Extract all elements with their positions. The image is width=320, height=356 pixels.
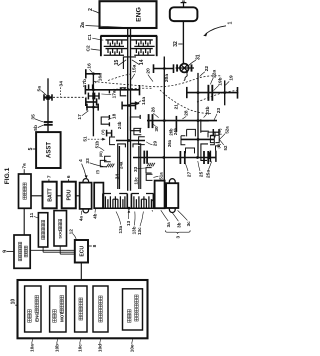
wire ECU to sensor group 10	[80, 263, 82, 281]
svg-text:22a: 22a	[212, 70, 218, 78]
motor rotor box 3a	[155, 181, 165, 209]
svg-text:2a: 2a	[80, 22, 86, 28]
clutch plate 27	[143, 151, 145, 164]
svg-text:(V): (V)	[100, 129, 105, 135]
gear 16	[86, 73, 101, 75]
dashed mesh arc 21	[160, 90, 211, 114]
bracket gear left of center	[130, 117, 140, 131]
main shaft 14/15 (concentric, double line)	[127, 36, 129, 191]
svg-text:12: 12	[69, 229, 75, 235]
svg-text:5a: 5a	[37, 86, 43, 92]
svg-text:MOT: MOT	[59, 312, 64, 322]
svg-text:10c: 10c	[78, 344, 83, 352]
bracket gear 29 left	[201, 119, 209, 133]
svg-text:(III): (III)	[98, 151, 103, 158]
svg-text:10b: 10b	[55, 344, 60, 352]
bracket under 28	[187, 129, 196, 136]
wire PDU-motor4	[76, 195, 80, 197]
svg-text:11: 11	[29, 212, 35, 217]
svg-text:17a: 17a	[111, 90, 117, 98]
svg-text:23: 23	[216, 108, 222, 114]
svg-text:18: 18	[112, 113, 118, 119]
bevel gear 31 (circle with cross)	[180, 64, 189, 73]
final drive / tank box 33 top	[170, 7, 198, 21]
svg-text:(IV): (IV)	[217, 128, 222, 135]
output gear plane 27/25 bar	[133, 157, 216, 159]
engine output shaft stub (double line)	[127, 28, 129, 36]
SOC sensor box 12	[54, 211, 67, 246]
svg-text:16: 16	[87, 63, 93, 69]
gear 14a on inner shaft	[122, 105, 136, 107]
svg-text:30: 30	[154, 126, 160, 132]
power drive unit PDU box 6	[62, 182, 76, 209]
svg-text:14a: 14a	[141, 97, 147, 105]
wide gear bar 15a/17 plane	[85, 89, 140, 91]
gear position sensor box 10d	[93, 286, 108, 332]
wire blower to requester box	[23, 208, 25, 235]
dashed mesh line lower right	[197, 91, 237, 102]
ECU box 8	[75, 240, 88, 263]
dashed mesh line mid	[94, 88, 152, 90]
svg-text:20a: 20a	[164, 74, 170, 82]
svg-text:19: 19	[228, 75, 234, 81]
svg-text:25: 25	[198, 171, 204, 177]
svg-text:15a: 15a	[132, 64, 138, 72]
brace 3	[165, 230, 190, 233]
svg-text:31: 31	[195, 54, 201, 60]
svg-text:51: 51	[82, 136, 88, 142]
svg-text:8: 8	[92, 244, 98, 247]
svg-text:ASST: ASST	[46, 142, 52, 158]
wheel speed sensor box 10e	[123, 289, 143, 330]
clutch plates on 24 shaft	[148, 114, 150, 128]
brackets near (III)	[105, 156, 111, 162]
svg-text:3a: 3a	[166, 222, 171, 228]
svg-text:ENG: ENG	[34, 312, 39, 322]
svg-text:28: 28	[184, 110, 190, 116]
svg-text:3c: 3c	[186, 221, 191, 227]
engine ENG box 2	[100, 1, 157, 28]
svg-text:34: 34	[58, 81, 64, 87]
svg-text:25a: 25a	[206, 170, 212, 178]
wire blower-BATT	[31, 195, 43, 197]
shaft 22	[197, 73, 199, 158]
synchro sleeve 52	[210, 135, 214, 142]
svg-text:10d: 10d	[98, 344, 103, 352]
MOT speed sensor box 10b	[50, 286, 66, 332]
gear cluster 17/18 on counter shaft	[86, 101, 98, 103]
blower box 7a	[19, 174, 32, 208]
svg-text:6: 6	[66, 175, 72, 178]
gear 23 end tick H	[212, 129, 214, 135]
worm squiggle under 31	[184, 72, 188, 81]
gear 28/25b plane bar	[147, 120, 217, 122]
svg-text:BATT: BATT	[47, 187, 53, 201]
gear 17a small gears	[87, 93, 89, 100]
dog clutch pack 13 left	[102, 194, 104, 209]
svg-text:10a: 10a	[30, 344, 35, 352]
svg-text:24b: 24b	[117, 121, 122, 129]
svg-text:51b: 51b	[94, 141, 99, 149]
junction node 13	[127, 207, 130, 210]
svg-text:22: 22	[204, 66, 210, 72]
motor MOT 3 with shaft bumps	[169, 179, 175, 183]
C gear at 140	[139, 137, 145, 145]
gear 22/19 plane bar	[187, 92, 239, 94]
hollow shaft 15 flange	[123, 57, 136, 69]
gear 5a on assist shaft	[44, 96, 53, 98]
svg-text:32: 32	[173, 41, 179, 47]
svg-text:16a: 16a	[97, 73, 103, 81]
bottom shaft baseline	[101, 207, 155, 209]
svg-text:5b: 5b	[33, 125, 39, 131]
motor 4 (oval generator)	[83, 179, 89, 183]
svg-text:52: 52	[223, 145, 228, 150]
bracket over 25 right	[201, 144, 208, 161]
end gear H right	[209, 151, 211, 162]
battery BATT box 7	[43, 182, 57, 209]
svg-text:27: 27	[186, 171, 192, 177]
sensor group box 10	[18, 280, 148, 338]
dashed mesh line upper	[94, 76, 222, 87]
assist shaft 5	[47, 78, 49, 132]
svg-text:4a: 4a	[79, 216, 84, 222]
svg-text:SOC: SOC	[58, 230, 63, 239]
bracket below	[134, 128, 141, 134]
assist motor ASST box 5	[36, 132, 61, 168]
shaft 24 plates (center column)	[116, 140, 145, 142]
plates by 25	[179, 151, 181, 164]
svg-text:3: 3	[175, 236, 181, 239]
clutch plates 19b	[207, 85, 209, 101]
svg-text:1: 1	[228, 21, 234, 24]
corner bracket right	[216, 146, 221, 151]
wire BATT-PDU	[57, 195, 62, 197]
svg-text:19b: 19b	[218, 77, 224, 85]
gear H (V)	[106, 130, 108, 137]
clutch housing (C1/C2 pack)	[100, 35, 157, 37]
dashed arc bottom	[151, 196, 154, 212]
svg-text:29: 29	[152, 141, 157, 147]
svg-text:4: 4	[78, 159, 84, 162]
svg-text:26: 26	[150, 107, 156, 113]
svg-text:7: 7	[46, 175, 52, 178]
gear 25a bar	[181, 138, 214, 140]
svg-text:13b: 13b	[131, 226, 136, 234]
ENG speed sensor box 10a	[25, 286, 41, 332]
svg-text:3b: 3b	[176, 222, 181, 228]
gear 15a hub bracket	[120, 88, 126, 96]
bracket over 25 left	[186, 148, 195, 153]
svg-text:7a: 7a	[22, 163, 28, 169]
wire sensors to ECU	[30, 249, 75, 251]
shaft 19	[224, 80, 226, 105]
brake 33 hatching left	[106, 164, 108, 168]
brackets of right brake	[146, 168, 152, 173]
svg-text:C1: C1	[87, 34, 93, 40]
bracket gear 18a	[101, 117, 109, 124]
svg-text:4b: 4b	[92, 213, 97, 219]
svg-text:51a: 51a	[158, 172, 163, 180]
bracket target of 51 arrow	[110, 137, 115, 145]
shaft 32	[182, 21, 184, 64]
svg-text:C2: C2	[86, 45, 92, 51]
clutch C2 plates	[106, 48, 128, 50]
svg-text:17: 17	[77, 114, 83, 120]
svg-text:52a: 52a	[225, 126, 230, 134]
brake 33 hatching right	[147, 163, 149, 167]
driving force request box 9	[14, 235, 30, 268]
stator box 4b	[94, 183, 103, 209]
hub tick 26b	[175, 116, 177, 132]
svg-text:10e: 10e	[130, 344, 135, 352]
bracket under 25b	[208, 132, 215, 137]
dog clutch pack 13 right	[130, 194, 132, 209]
counter shaft 16/17	[92, 74, 94, 137]
svg-text:ECU: ECU	[79, 245, 85, 256]
svg-text:FIG.1: FIG.1	[4, 167, 11, 184]
svg-text:24b: 24b	[173, 127, 178, 135]
vehicle speed sensor box 10c	[75, 286, 87, 332]
svg-text:13c: 13c	[137, 227, 142, 235]
svg-text:24a: 24a	[119, 161, 124, 169]
svg-text:13: 13	[126, 220, 131, 226]
gear 17b	[88, 84, 90, 89]
vent symbol on tank	[181, 2, 187, 4]
svg-text:13c: 13c	[133, 177, 138, 185]
svg-text:14: 14	[139, 59, 145, 65]
gear 5b on assist shaft	[44, 121, 53, 123]
gear 20 on shaft 24 upper	[163, 57, 165, 182]
dashed mesh line 16-15a	[108, 74, 131, 81]
gear 26 bar	[131, 102, 139, 104]
svg-text:33: 33	[133, 166, 139, 172]
svg-text:PDU: PDU	[67, 189, 73, 200]
svg-text:20: 20	[145, 68, 151, 74]
svg-text:21: 21	[174, 104, 180, 110]
svg-text:26a: 26a	[167, 139, 172, 147]
svg-text:10: 10	[11, 299, 17, 305]
temperature sensor box 11	[38, 213, 47, 247]
clutch C1 plates	[106, 39, 128, 41]
svg-text:13a: 13a	[118, 225, 123, 233]
svg-text:ENG: ENG	[135, 7, 142, 22]
svg-text:24: 24	[115, 174, 121, 180]
